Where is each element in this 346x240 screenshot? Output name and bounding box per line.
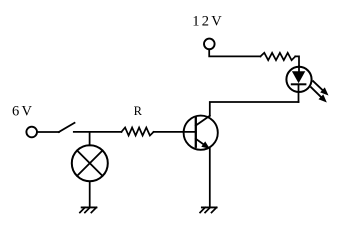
wire 6V terminal to switch: [37, 131, 59, 133]
wire lamp to ground: [89, 182, 91, 207]
terminal 6V: [26, 127, 37, 138]
LED D1 circle: [286, 67, 311, 92]
terminal 12V: [204, 39, 215, 50]
transistor Q1 emitter: [196, 139, 210, 149]
wire resistor R to transistor base: [154, 131, 196, 133]
LED D1 cathode bar: [292, 83, 306, 85]
LED D1 triangle: [292, 71, 305, 83]
LED light arrow 2: [311, 87, 327, 102]
transistor Q1 base bar: [195, 116, 197, 147]
wire resistor to LED anode: [295, 56, 299, 66]
transistor Q1 circle: [184, 116, 218, 150]
LED D1 cathode lead: [298, 84, 300, 102]
ground (lamp): [80, 207, 97, 212]
lamp L1 cross: [77, 151, 102, 176]
svg-text:R: R: [134, 104, 143, 118]
ground (emitter): [200, 207, 217, 212]
node junction (lamp tap): [89, 132, 91, 145]
transistor Q1 collector: [196, 116, 210, 126]
switch S1 blade (open): [59, 123, 75, 132]
lamp L1 circle: [72, 145, 108, 181]
wire LED cathode to collector: [210, 102, 299, 116]
wire 12V terminal to resistor: [209, 49, 260, 56]
wire emitter to ground: [209, 149, 211, 207]
svg-text:12V: 12V: [192, 14, 224, 30]
resistor (top, unlabeled): [260, 53, 295, 60]
wire switch to junction to resistor R: [74, 131, 122, 133]
LED D1 anode lead: [298, 66, 300, 71]
svg-text:6V: 6V: [12, 104, 34, 120]
resistor R: [121, 128, 153, 136]
LED light arrow 1: [313, 81, 328, 95]
